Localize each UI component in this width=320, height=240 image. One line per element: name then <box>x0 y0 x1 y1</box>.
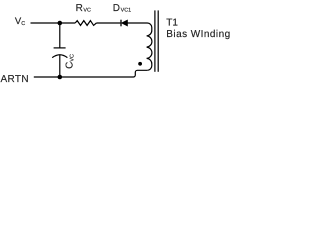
svg-text:ARTN: ARTN <box>1 74 29 85</box>
transformer core bar 1 <box>154 10 156 71</box>
svg-text:R: R <box>76 3 83 14</box>
transformer T1 winding <box>147 28 152 71</box>
capacitor CVC bottom lead <box>59 55 61 77</box>
wire winding bottom to rail step <box>34 70 148 77</box>
svg-text:Bias WInding: Bias WInding <box>166 29 230 40</box>
transformer core bar 2 <box>157 10 159 71</box>
capacitor CVC curved plate <box>52 55 67 58</box>
wire diode to transformer with corner <box>127 23 151 28</box>
diode DVC1 triangle <box>122 20 128 26</box>
svg-text:D: D <box>113 3 120 14</box>
node junction dot top <box>58 21 63 26</box>
transformer phasing dot <box>138 62 142 66</box>
resistor RVC <box>75 21 96 26</box>
diode DVC1 cathode bar <box>120 20 122 27</box>
svg-text:VC1: VC1 <box>121 7 132 13</box>
svg-text:VC: VC <box>83 7 91 13</box>
wire resistor to diode <box>96 22 120 24</box>
svg-text:T1: T1 <box>166 18 178 29</box>
node junction dot bottom <box>58 75 63 80</box>
wire Vc to resistor <box>31 22 76 24</box>
capacitor CVC top plate <box>54 47 66 49</box>
capacitor CVC top lead <box>59 23 61 48</box>
